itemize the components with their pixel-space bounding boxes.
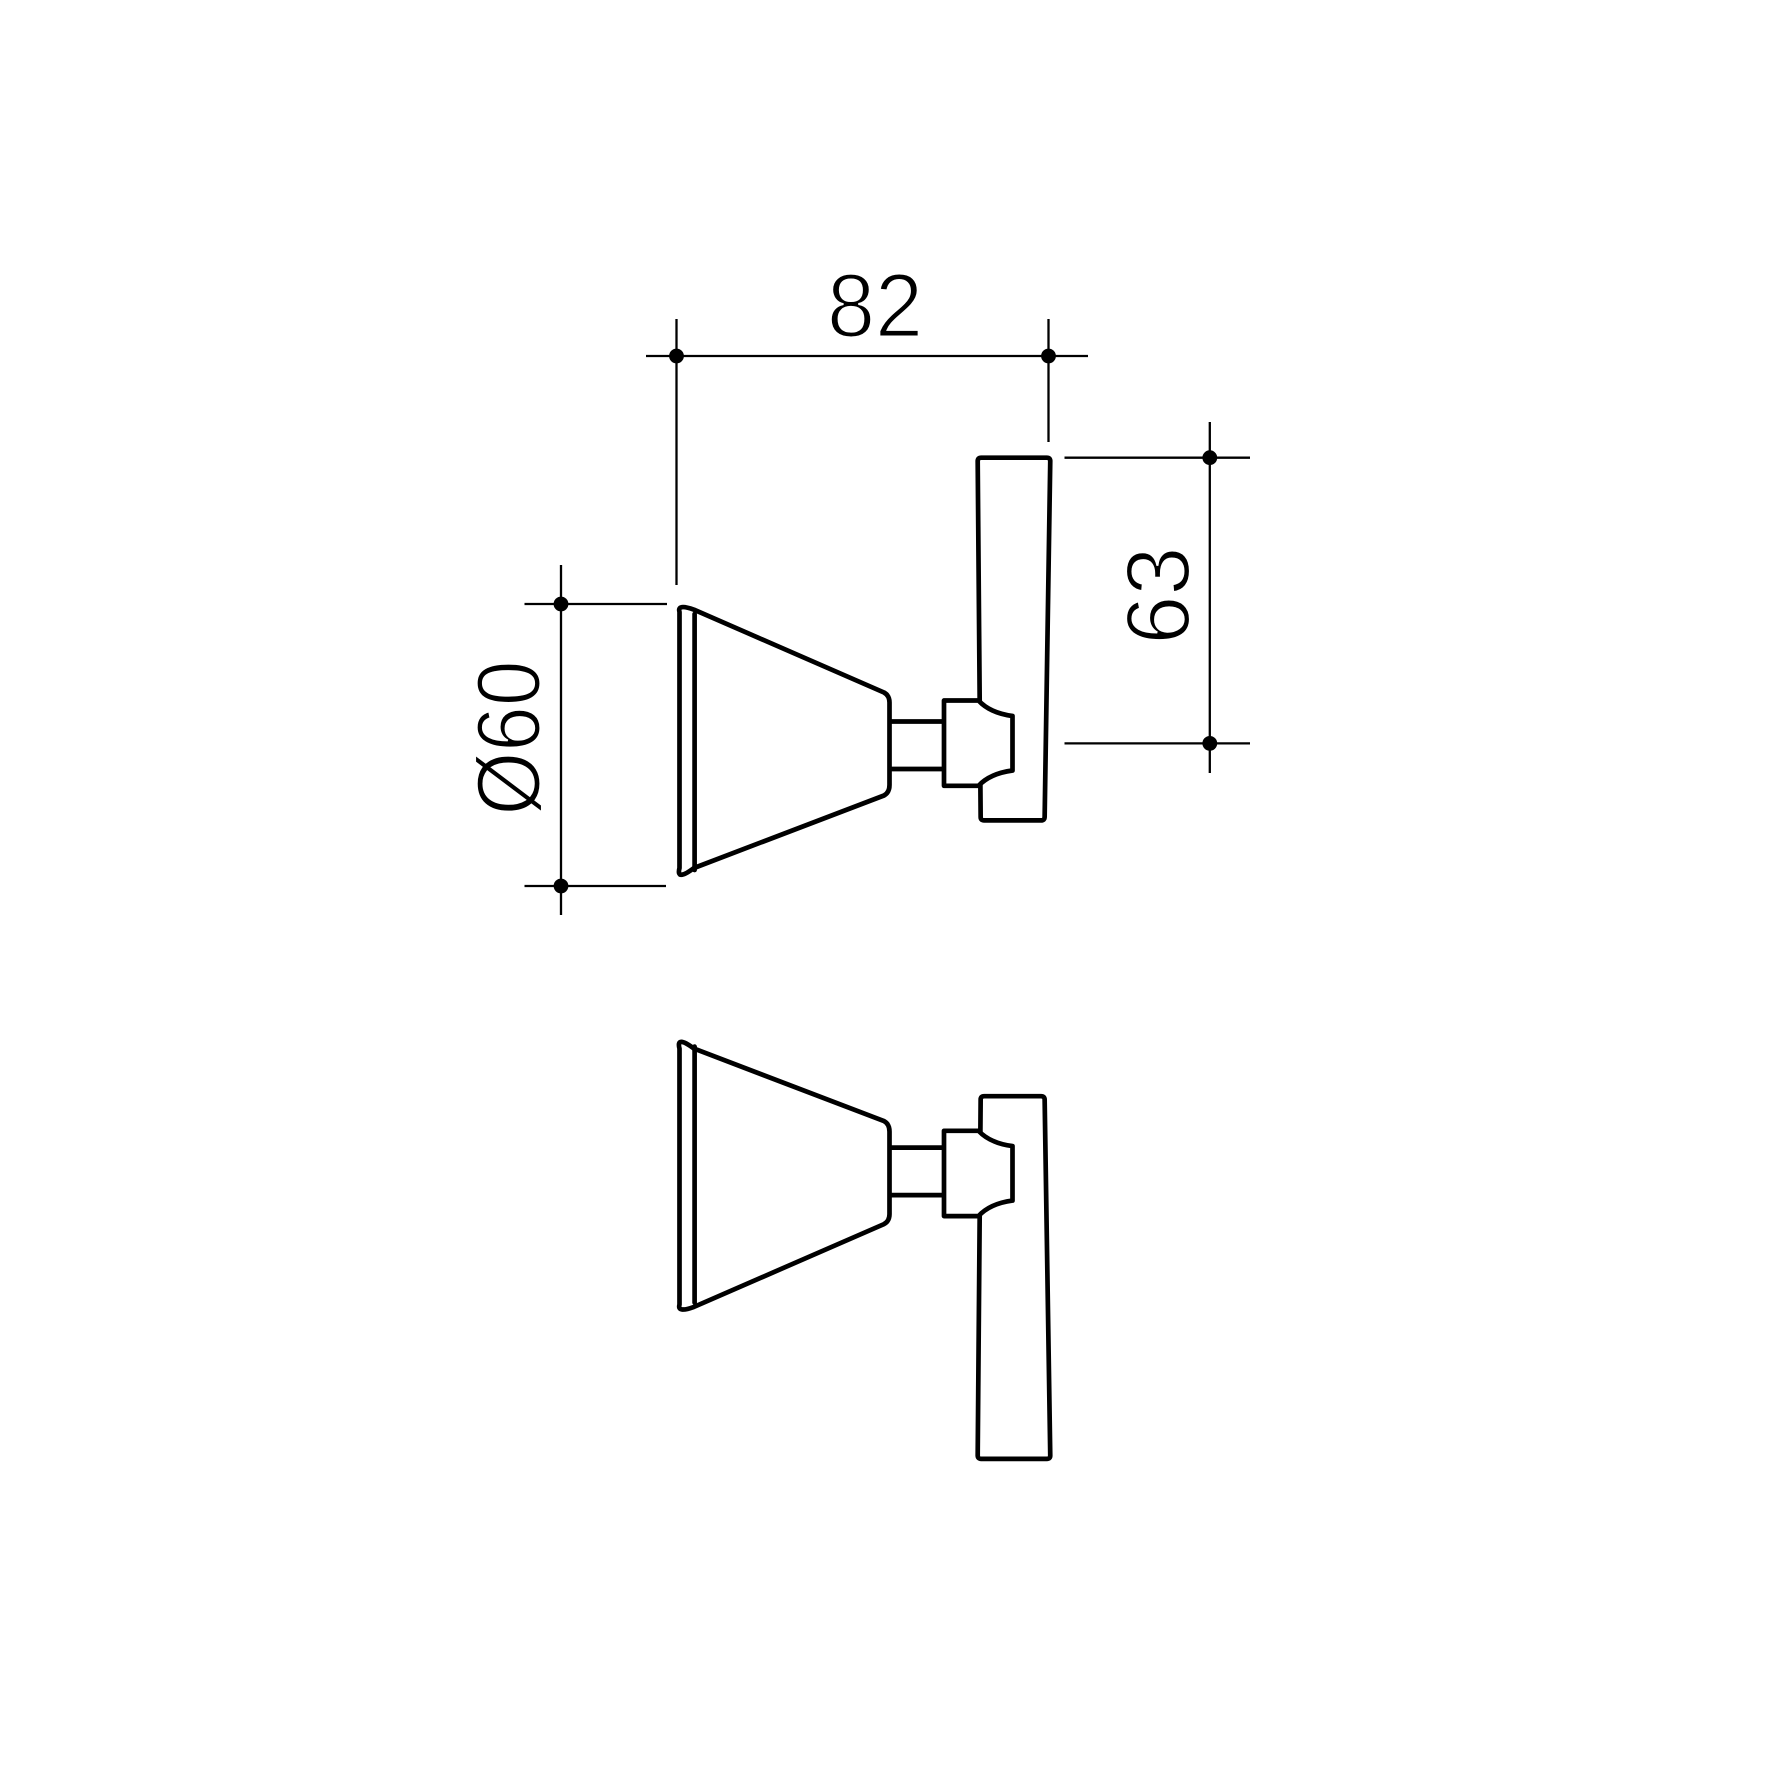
dot top (63) bbox=[1202, 450, 1217, 465]
extension line top (63) bbox=[1065, 457, 1251, 459]
dimension line 82 bbox=[646, 355, 1088, 357]
extension line bottom (63) bbox=[1065, 742, 1251, 744]
svg-text:63: 63 bbox=[1109, 547, 1209, 645]
dimension line Ø60 bbox=[560, 565, 562, 915]
dot right (82) bbox=[1041, 349, 1056, 364]
spindle adapter block bbox=[944, 701, 1013, 786]
cone knob outline bbox=[679, 607, 890, 875]
dot bottom (Ø60) bbox=[554, 879, 569, 894]
dimension line 63 bbox=[1209, 422, 1211, 773]
extension line top (Ø60) bbox=[525, 603, 668, 605]
handle, second view (mirrored copy below) bbox=[679, 1042, 1050, 1459]
cone face edge line bbox=[692, 614, 697, 870]
stem upper line bbox=[889, 719, 946, 724]
dot left (82) bbox=[669, 349, 684, 364]
dot top (Ø60) bbox=[554, 597, 569, 612]
extension line right (82) bbox=[1047, 319, 1049, 442]
svg-text:82: 82 bbox=[827, 257, 923, 357]
lever handle bar bbox=[978, 458, 1051, 821]
extension line bottom (Ø60) bbox=[525, 885, 667, 887]
svg-text:Ø60: Ø60 bbox=[460, 661, 560, 816]
dot bottom (63) bbox=[1202, 736, 1217, 751]
stem lower line bbox=[889, 767, 946, 772]
extension line left (82) bbox=[675, 319, 677, 585]
